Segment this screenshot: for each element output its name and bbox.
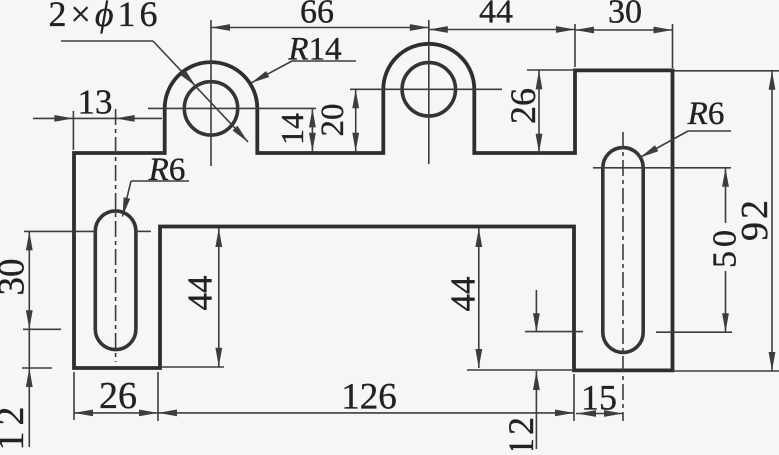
svg-text:20: 20 [315, 104, 351, 137]
svg-text:12: 12 [501, 414, 541, 450]
svg-text:14: 14 [274, 113, 310, 145]
svg-text:26: 26 [99, 375, 137, 417]
svg-text:66: 66 [300, 0, 334, 31]
svg-text:26: 26 [503, 88, 543, 124]
svg-text:44: 44 [444, 277, 483, 312]
svg-text:2×ϕ16: 2×ϕ16 [49, 0, 162, 34]
svg-text:50: 50 [707, 226, 744, 268]
svg-text:44: 44 [181, 276, 220, 311]
svg-text:R6: R6 [148, 152, 186, 188]
svg-text:R6: R6 [687, 96, 725, 132]
svg-text:13: 13 [78, 83, 113, 122]
svg-text:30: 30 [0, 259, 33, 296]
svg-text:R14: R14 [287, 32, 341, 68]
svg-text:15: 15 [581, 378, 617, 418]
svg-text:12: 12 [0, 401, 32, 451]
svg-text:30: 30 [608, 0, 642, 31]
svg-text:126: 126 [341, 377, 397, 418]
svg-text:44: 44 [479, 0, 513, 31]
